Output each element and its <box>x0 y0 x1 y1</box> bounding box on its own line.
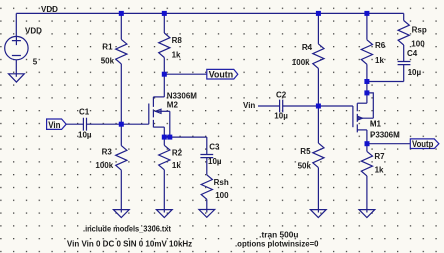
svg-text:R8: R8 <box>172 36 183 45</box>
svg-text:VDD: VDD <box>25 27 42 36</box>
svg-text:C2: C2 <box>276 91 287 100</box>
svg-text:1k: 1k <box>172 51 181 60</box>
svg-text:Voutn: Voutn <box>209 70 234 80</box>
junction M2 gate node <box>119 122 124 127</box>
wire C4 bottom row <box>367 81 404 83</box>
ground (R7) <box>359 210 375 218</box>
svg-text:R7: R7 <box>374 152 385 161</box>
wire M2 source row to C3 <box>164 136 207 138</box>
resistor R3 <box>95 124 127 212</box>
wire Voutp node <box>367 143 410 145</box>
svg-text:10µ: 10µ <box>208 157 222 166</box>
capacitor C4 <box>398 49 422 81</box>
capacitor C2 <box>258 91 318 121</box>
junction rail-R8 <box>162 11 167 16</box>
svg-text:C4: C4 <box>407 49 418 58</box>
svg-text:R1: R1 <box>102 43 113 52</box>
voltage source V5 <box>5 13 42 66</box>
svg-text:1k: 1k <box>375 56 384 65</box>
svg-text:100k: 100k <box>292 58 310 67</box>
junction M2 bulk node <box>167 135 172 140</box>
junction Voutp node <box>365 141 370 146</box>
junction R6-C4 node <box>364 79 369 84</box>
svg-text:100k: 100k <box>95 161 113 170</box>
transistor M1 (PMOS P3306M) <box>318 93 400 144</box>
svg-text:M2: M2 <box>167 100 179 109</box>
junction rail-R4 <box>316 11 321 16</box>
port Voutn <box>207 69 238 79</box>
svg-text:R6: R6 <box>375 41 386 50</box>
transistor M2 (NMOS N3306M) <box>149 74 197 137</box>
port Vin (left input) <box>47 119 67 130</box>
wire VDD rail <box>16 12 403 14</box>
svg-text:1k: 1k <box>375 166 384 175</box>
resistor Rsh <box>201 175 229 213</box>
svg-text:100: 100 <box>411 39 425 48</box>
svg-text:M1: M1 <box>370 120 382 129</box>
svg-text:50k: 50k <box>101 57 115 66</box>
svg-text:Vin: Vin <box>48 120 61 130</box>
junction M1 gate node <box>316 104 321 109</box>
svg-text:10µ: 10µ <box>274 111 288 120</box>
resistor R4 <box>292 13 324 106</box>
svg-text:Vin Vin 0 DC 0 SIN 0 10mV 10kH: Vin Vin 0 DC 0 SIN 0 10mV 10kHz <box>67 239 192 248</box>
svg-text:P3306M: P3306M <box>370 130 400 139</box>
resistor R1 <box>101 13 127 124</box>
svg-text:.tran 500u: .tran 500u <box>259 231 298 240</box>
ground (R3) <box>113 210 129 218</box>
svg-text:Rsp: Rsp <box>412 26 427 35</box>
junction rail-R6 <box>364 11 369 16</box>
svg-text:VDD: VDD <box>41 5 58 14</box>
resistor R6 <box>361 13 385 93</box>
ground (under V5) <box>15 60 17 77</box>
svg-text:Voutp: Voutp <box>412 139 434 149</box>
resistor R7 <box>361 144 385 213</box>
svg-text:50k: 50k <box>298 161 312 170</box>
ground (R5) <box>310 210 326 218</box>
svg-text:100: 100 <box>215 191 229 200</box>
svg-text:10µ: 10µ <box>78 130 92 139</box>
resistor R2 <box>159 137 183 212</box>
capacitor C1 <box>66 108 149 140</box>
resistor R8 <box>159 13 183 74</box>
svg-text:10µ: 10µ <box>408 68 422 77</box>
ground (Rsh) <box>199 210 215 218</box>
resistor R5 <box>298 106 324 213</box>
svg-text:C1: C1 <box>79 108 90 117</box>
svg-text:5: 5 <box>33 58 38 67</box>
resistor Rsp <box>398 13 427 61</box>
svg-text:Vin: Vin <box>243 101 255 110</box>
svg-text:R4: R4 <box>302 43 313 52</box>
svg-text:1k: 1k <box>172 161 181 170</box>
junction Voutn node <box>162 72 167 77</box>
port Voutp <box>410 139 439 149</box>
svg-text:R2: R2 <box>172 148 183 157</box>
svg-text:Rsh: Rsh <box>214 178 229 187</box>
svg-text:.options plotwinsize=0: .options plotwinsize=0 <box>235 240 319 249</box>
junction M1 source node <box>364 90 369 95</box>
ground (R2) <box>156 210 172 218</box>
junction M2 source node <box>162 135 167 140</box>
capacitor C3 <box>200 137 221 175</box>
svg-text:R5: R5 <box>300 147 311 156</box>
svg-text:R3: R3 <box>102 148 113 157</box>
junction rail-R1 <box>119 11 124 16</box>
wire Voutn node <box>164 73 207 75</box>
svg-text:C3: C3 <box>209 142 220 151</box>
svg-text:.include models_3306.txt: .include models_3306.txt <box>83 224 171 233</box>
